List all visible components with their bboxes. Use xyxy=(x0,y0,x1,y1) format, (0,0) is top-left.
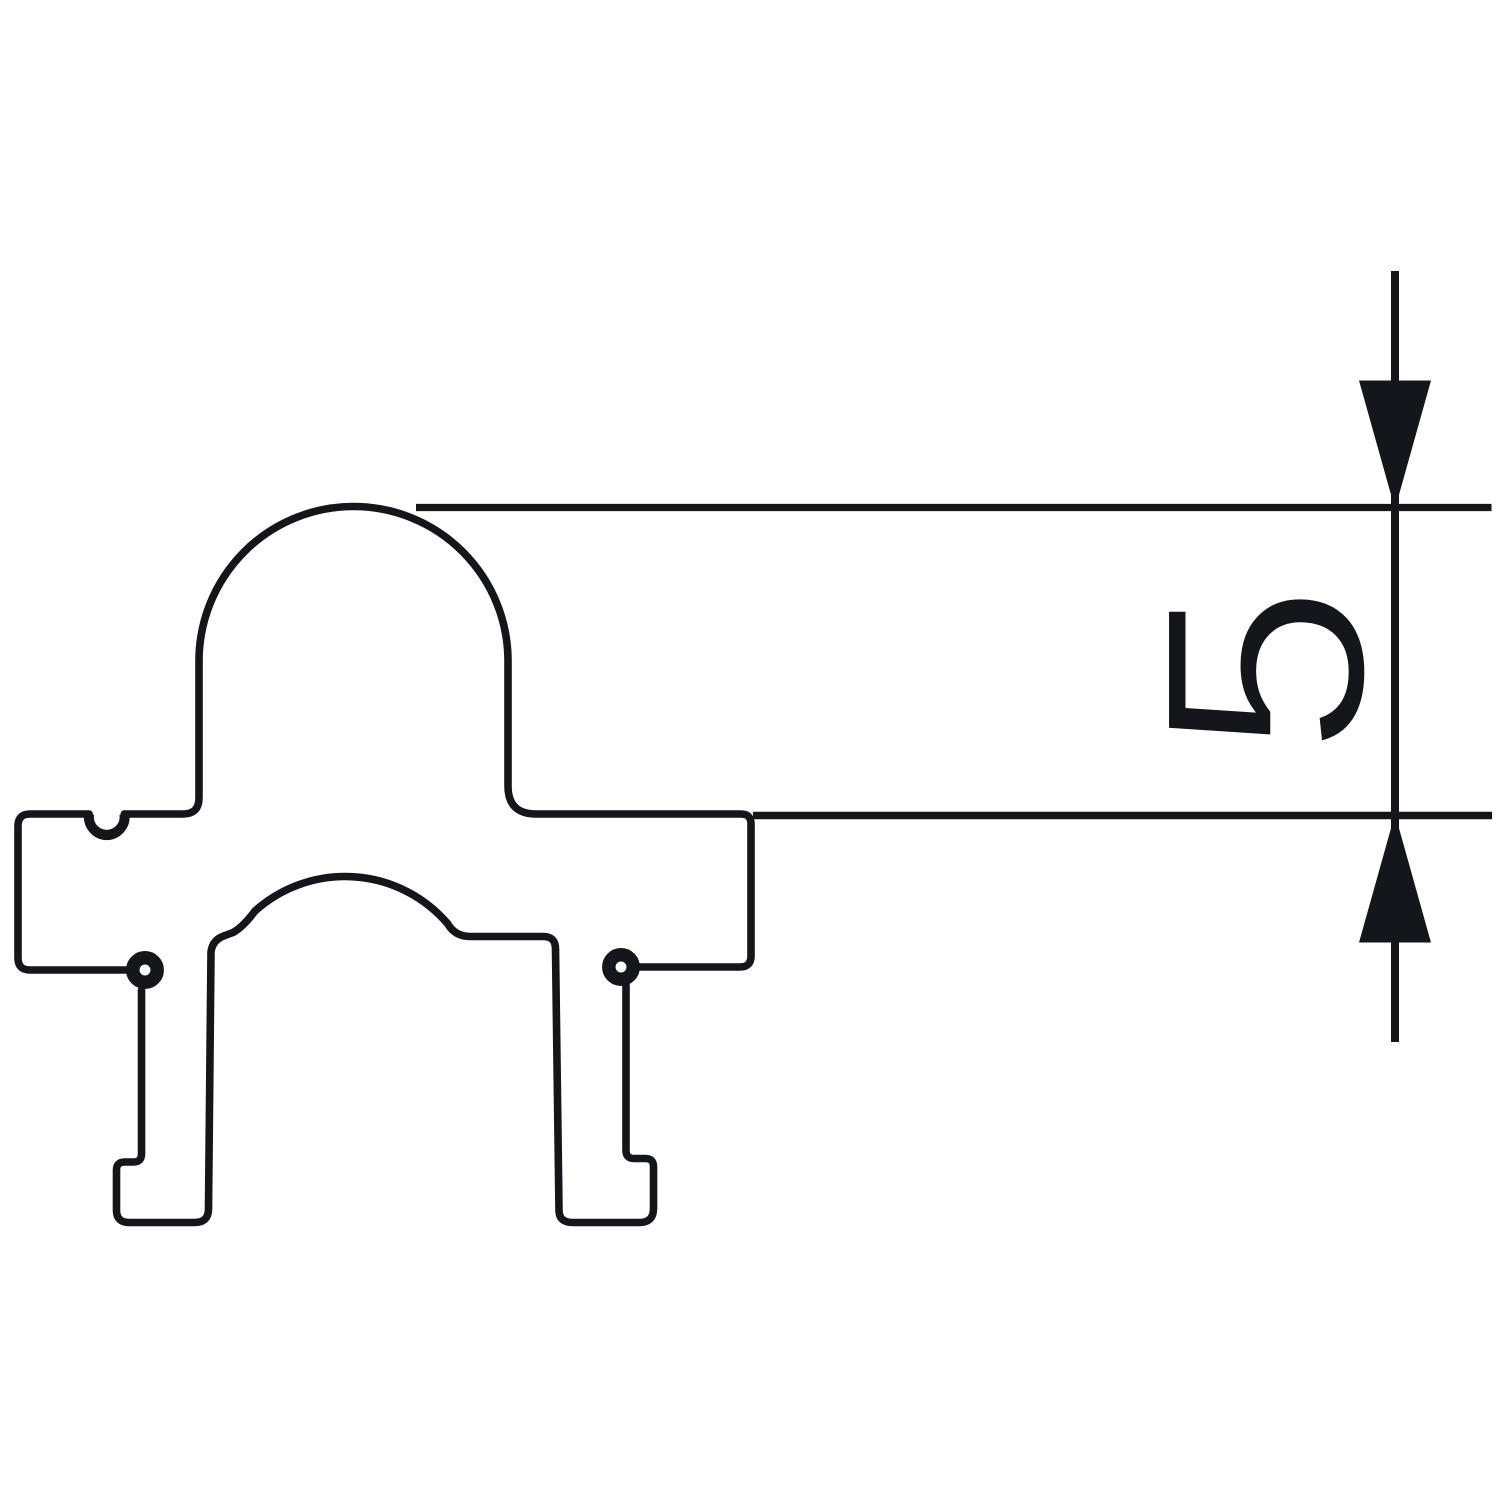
dimension line vertical xyxy=(1391,271,1399,1042)
profile lower outline (legs, feet, inner arch) xyxy=(117,877,654,1223)
bead right xyxy=(609,955,633,979)
arrow up xyxy=(1359,814,1431,943)
svg-text:5: 5 xyxy=(1106,584,1426,756)
notch groove (thicker) xyxy=(89,814,125,835)
extension line top xyxy=(416,504,1492,511)
bead left xyxy=(133,958,157,982)
extension line bottom xyxy=(753,812,1492,819)
arrow down xyxy=(1359,381,1431,510)
profile body outline (bar + top dome) xyxy=(18,507,751,970)
